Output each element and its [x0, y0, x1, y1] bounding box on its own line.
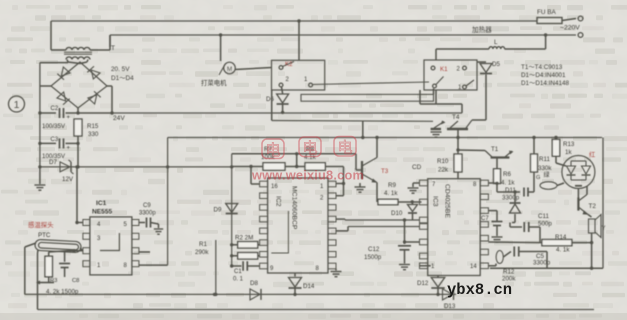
IC3 right pin stub	[480, 235, 488, 241]
svg-text:T: T	[111, 45, 115, 52]
wire down to pins	[343, 167, 345, 196]
wire IC2 pin to IC3	[336, 218, 345, 220]
resistor R2	[238, 242, 258, 249]
wire left column vertical	[39, 63, 41, 167]
relay coil	[301, 94, 434, 101]
bridge rectifier D1-D4	[51, 62, 107, 108]
wire IC3 pin8 to R6	[488, 182, 497, 184]
ground under T4	[431, 132, 442, 137]
svg-text:3300p: 3300p	[502, 195, 520, 202]
svg-text:100/35V: 100/35V	[42, 123, 66, 130]
svg-text:电: 电	[337, 140, 352, 157]
svg-text:1k: 1k	[565, 149, 572, 156]
svg-text:D14: D14	[303, 283, 315, 290]
IC2 right pin stub	[328, 228, 336, 234]
wire jog down to 24V rail	[461, 104, 463, 113]
zener D7 12V	[60, 160, 74, 174]
diode D10 bar	[408, 212, 417, 214]
svg-text:22k: 22k	[438, 167, 449, 174]
resistor R9	[378, 199, 398, 205]
wire C2 to R15 node	[66, 112, 79, 114]
wire C5 to bottom node	[546, 252, 548, 269]
wire T1 collector	[458, 149, 485, 152]
wire mains to K2 top	[298, 21, 300, 60]
svg-text:20. 5V: 20. 5V	[111, 66, 130, 73]
IC1 left pin stub	[83, 233, 90, 239]
svg-text:C7: C7	[481, 216, 489, 222]
relay K2 box	[272, 60, 325, 90]
wire 12V rail (y=167)	[40, 166, 232, 168]
svg-text:FU BA: FU BA	[537, 9, 557, 16]
wire pin to C7	[488, 210, 497, 212]
wire mains rail N (y=35)	[110, 34, 576, 36]
svg-text:4. 1k: 4. 1k	[384, 190, 398, 197]
capacitor C12	[398, 246, 411, 250]
wire rail to R13	[555, 138, 557, 140]
R3 bottom bar	[40, 282, 54, 284]
wire vertical x=232	[231, 154, 233, 265]
svg-text:C12: C12	[368, 246, 380, 253]
wire D11 row	[497, 191, 520, 193]
svg-text:D7: D7	[49, 159, 57, 166]
svg-text:D1～D14:IN4148: D1～D14:IN4148	[521, 80, 569, 87]
dual LED indicator	[562, 156, 595, 189]
wire C12 node to IC3	[405, 241, 420, 243]
wire pin14 to oval	[488, 265, 496, 267]
svg-text:电: 电	[265, 142, 280, 159]
wire IC1 pin6 stub	[139, 251, 150, 253]
svg-text:加热器: 加热器	[472, 25, 492, 34]
capacitor 3300p D11 row	[524, 188, 528, 197]
svg-text:PTC: PTC	[38, 232, 51, 239]
wire R8 to IC2 pin1 node	[325, 166, 343, 168]
wire K2 contact2 to D6	[282, 87, 283, 94]
svg-text:C2: C2	[51, 106, 59, 112]
svg-text:T3: T3	[381, 168, 389, 175]
IC2 right pin stub	[328, 216, 336, 222]
wire probe loop left down	[24, 247, 26, 294]
svg-text:ybx8.cn: ybx8.cn	[447, 281, 512, 299]
svg-text:~220V: ~220V	[560, 25, 580, 32]
IC1 right pin stub	[132, 248, 139, 254]
svg-text:G: G	[536, 175, 540, 181]
ground under C12	[399, 265, 410, 270]
svg-text:T2: T2	[589, 203, 597, 210]
svg-text:12V: 12V	[62, 176, 74, 183]
IC2 right pin stub	[328, 205, 336, 211]
svg-text:红: 红	[589, 151, 595, 159]
wire R10 to IC3	[457, 172, 459, 179]
oval component (filter)	[540, 182, 557, 190]
IC U2: IC2 MC14060BCP body	[268, 178, 328, 273]
capacitor C8	[59, 264, 70, 268]
svg-text:R13: R13	[563, 141, 575, 148]
diode D9	[226, 204, 238, 213]
svg-text:D6: D6	[266, 96, 274, 103]
wire probe to IC1 pin	[80, 248, 83, 251]
IC3 right pin stub	[480, 263, 488, 269]
IC3 right pin stub	[480, 249, 488, 255]
wire R9 to IC3 pin	[398, 201, 422, 203]
resistor R15	[74, 119, 82, 136]
svg-text:R11: R11	[539, 156, 550, 163]
circled number 1 marker	[9, 96, 25, 112]
svg-text:3300p: 3300p	[139, 211, 156, 217]
wire IC2 to D14	[294, 273, 296, 277]
IC2 left pin stub	[260, 193, 268, 199]
wire IC3 pin1 col	[437, 276, 439, 278]
IC2 right pin stub	[328, 193, 336, 199]
IC2 right pin stub	[328, 181, 336, 187]
wire mid rail	[40, 142, 56, 144]
wire K2 left edge down	[271, 90, 273, 121]
wire to T4 base (y=120.5)	[272, 120, 433, 123]
ground near T3	[355, 187, 366, 192]
wire transformer primary right drop	[109, 35, 111, 47]
resistor R13	[552, 139, 560, 156]
svg-text:M: M	[227, 66, 232, 73]
svg-text:IC1: IC1	[96, 200, 107, 207]
resistor R14	[542, 239, 572, 245]
wire 24V rail (y=113)	[112, 112, 462, 114]
ground at C9	[154, 229, 163, 234]
svg-text:CD4025BE: CD4025BE	[444, 184, 451, 218]
resistor R3	[45, 256, 53, 277]
svg-text:K1: K1	[440, 66, 448, 73]
svg-text:D8: D8	[250, 280, 258, 287]
IC2 left pin stub	[260, 263, 268, 269]
ground left of IC1	[34, 185, 45, 190]
inductor L	[489, 47, 505, 49]
diode D5	[480, 64, 492, 73]
transformer T	[66, 47, 90, 50]
IC2 left pin stub	[260, 252, 268, 258]
wire speaker down	[591, 233, 593, 268]
wire mains rail L (y=21)	[51, 20, 537, 22]
wire bridge right drop	[111, 86, 113, 113]
wire bottom node (y=268)	[490, 267, 603, 269]
svg-text:D5: D5	[492, 61, 500, 68]
wire 24V rail start	[40, 112, 56, 114]
wire T3 emitter to R9	[376, 183, 378, 203]
svg-text:24V: 24V	[113, 115, 125, 122]
IC2 right pin stub	[328, 252, 336, 258]
svg-text:14: 14	[470, 264, 477, 270]
svg-text:IC3: IC3	[432, 196, 439, 207]
wire to C1	[232, 265, 242, 267]
IC3 left pin stub	[420, 224, 428, 230]
wire right outer vertical x=603	[602, 138, 604, 269]
capacitor C5	[514, 247, 519, 257]
wire left control vertical x=168	[167, 138, 169, 266]
diode D8	[250, 289, 261, 300]
svg-text:IC2: IC2	[275, 196, 282, 207]
wire transformer primary left drop	[50, 21, 52, 48]
transistor T3	[355, 154, 357, 170]
svg-text:0. 1: 0. 1	[233, 277, 244, 283]
wire heater drop	[545, 35, 547, 49]
svg-text:感温探头: 感温探头	[28, 220, 54, 229]
fuse FU BA	[537, 18, 562, 24]
IC3 right pin stub	[480, 180, 488, 186]
motor M (打菜电机)	[224, 62, 236, 74]
IC2 left pin stub	[260, 205, 268, 211]
resistor R10	[454, 154, 462, 172]
diode D14	[289, 278, 302, 288]
diode D6	[277, 94, 289, 103]
wire to R3	[48, 252, 50, 256]
svg-text:T1～T4:C9013: T1～T4:C9013	[521, 64, 563, 71]
relay K1 box	[424, 60, 477, 90]
IC2 left pin stub	[260, 216, 268, 222]
wire oval to LED	[557, 183, 564, 186]
wire K1 bottom	[435, 90, 437, 104]
svg-text:CD: CD	[412, 164, 422, 171]
IC U3: IC3 CD4025BE body	[428, 179, 481, 276]
wire to C8	[64, 252, 66, 262]
wire 12V to IC1 pin4	[76, 167, 78, 223]
IC1 right pin stub	[132, 233, 139, 239]
svg-text:NE555: NE555	[92, 209, 112, 216]
IC2 right pin stub	[328, 263, 336, 269]
resistor R8	[305, 163, 325, 171]
wire C11 row	[510, 226, 522, 228]
svg-text:4. 2k 1500p: 4. 2k 1500p	[46, 289, 79, 296]
svg-text:D9: D9	[214, 207, 222, 214]
IC3 left pin stub	[420, 217, 428, 223]
IC1 left pin stub	[83, 261, 90, 267]
wire K1 to rail jog	[420, 103, 462, 105]
svg-text:+: +	[67, 115, 71, 121]
svg-text:290k: 290k	[195, 249, 209, 256]
svg-text:3300p: 3300p	[533, 260, 551, 267]
ground at IC2 pin 8	[331, 272, 342, 277]
speaker Y	[589, 219, 596, 233]
wire y=154 to T3	[232, 153, 356, 155]
wire control top rail (y=137.5)	[168, 137, 602, 139]
svg-text:T1: T1	[491, 146, 499, 153]
capacitor C2	[60, 108, 64, 118]
wire R14 to output node	[572, 242, 592, 244]
resistor R11	[531, 154, 538, 172]
svg-text:330k: 330k	[538, 165, 552, 172]
wire junction vertical x=362.8	[362, 121, 364, 138]
wire bottom rail 1 (y=294.4)	[25, 293, 456, 295]
IC3 left pin stub	[420, 263, 428, 269]
IC2 left pin stub	[260, 228, 268, 234]
svg-text:www.weixiu8.com: www.weixiu8.com	[251, 168, 364, 183]
wire K2 contact1 to K1	[313, 82, 430, 85]
wire secondary to left column	[40, 62, 68, 64]
resistor R7	[263, 163, 285, 171]
IC U1: IC1 NE555 body	[90, 217, 132, 275]
svg-text:打菜电机: 打菜电机	[201, 78, 227, 87]
wire to R2	[232, 244, 238, 246]
wire oval to C5	[503, 252, 511, 258]
svg-text:L: L	[494, 39, 498, 46]
svg-text:C1: C1	[234, 269, 242, 275]
ground under C7	[492, 237, 503, 242]
svg-text:R15: R15	[87, 123, 99, 130]
node R9/D10	[411, 200, 414, 203]
IC3 right pin stub	[480, 222, 488, 228]
diode at C7 node	[510, 204, 521, 213]
capacitor C7	[492, 222, 503, 226]
svg-text:1500p: 1500p	[364, 254, 382, 261]
wire probe loop to rail2	[37, 253, 39, 310]
IC3 right pin stub	[480, 194, 488, 200]
IC1 right pin stub	[132, 261, 139, 267]
wire T4 to R10	[457, 129, 459, 154]
IC3 left pin stub	[420, 180, 428, 186]
wire bridge left to left column	[40, 85, 51, 87]
wire 24V rail segment	[78, 112, 112, 114]
svg-text:R12: R12	[503, 269, 515, 276]
wire rail to R11	[533, 138, 535, 155]
wire D6 to 24V rail	[282, 105, 284, 113]
wire R11 to oval	[533, 172, 535, 186]
svg-text:500p: 500p	[538, 221, 552, 228]
wire IC3 to R14	[488, 241, 542, 244]
IC1 left pin stub	[83, 248, 90, 254]
relay K1 armature	[436, 77, 444, 85]
svg-text:R6: R6	[503, 171, 511, 178]
transistor T4	[431, 128, 441, 130]
IC1 left pin stub	[83, 220, 90, 226]
wire LED to T2	[577, 189, 579, 198]
wire K1 to D5	[477, 61, 486, 63]
svg-text:D1～D4:IN4001: D1～D4:IN4001	[521, 72, 566, 79]
wire bottom rail 2 (y=309.5)	[38, 309, 595, 311]
ground at IC3 pin7	[408, 188, 419, 193]
resistor R1 body	[238, 253, 258, 259]
wire pin8 to ground	[335, 269, 337, 271]
wire IC1 pin8 to control vertical	[139, 264, 168, 266]
wire R1 column	[215, 240, 217, 294]
svg-text:R14: R14	[555, 234, 567, 241]
wire to lower resistor	[232, 255, 238, 257]
IC3 left pin stub	[420, 239, 428, 245]
wire motor to relay K2	[235, 68, 272, 70]
svg-text:R10: R10	[437, 158, 449, 165]
svg-text:16: 16	[271, 184, 278, 190]
svg-text:D10: D10	[391, 210, 403, 217]
wire K1 contact to coil	[433, 89, 435, 95]
capacitor C9	[147, 218, 151, 228]
wire C12 column	[404, 220, 406, 244]
wire R7-R8	[285, 166, 305, 168]
svg-text:R1: R1	[199, 241, 207, 248]
svg-text:+: +	[67, 146, 71, 152]
terminal ~220V lower	[578, 33, 583, 38]
svg-text:R9: R9	[388, 182, 396, 189]
wire to ground left	[39, 167, 41, 184]
terminal ~220V upper	[578, 16, 583, 21]
diode D12	[431, 278, 445, 288]
svg-text:D13: D13	[444, 303, 456, 310]
transistor T2	[577, 198, 579, 211]
IC3 left pin stub	[420, 253, 428, 259]
wire T1 emitter to R6	[496, 158, 498, 169]
node probe/R3/C8	[72, 249, 75, 252]
svg-text:C8: C8	[72, 278, 79, 284]
IC3 right pin stub	[480, 208, 488, 214]
svg-text:T4: T4	[452, 114, 460, 121]
svg-text:C3: C3	[51, 137, 59, 143]
svg-text:R2 2M: R2 2M	[235, 235, 253, 242]
PTC probe element	[35, 239, 82, 252]
svg-text:绿: 绿	[544, 171, 550, 179]
IC2 right pin stub	[328, 240, 336, 246]
diode D13	[443, 289, 454, 300]
IC2 left pin stub	[260, 181, 268, 187]
IC3 left pin stub	[420, 199, 428, 205]
relay K2 armature	[283, 62, 295, 67]
wire pin7 to ground	[413, 182, 420, 184]
svg-text:C9: C9	[143, 203, 151, 209]
capacitor C3	[60, 138, 64, 148]
svg-text:D12: D12	[417, 280, 429, 287]
svg-text:D1～D4: D1～D4	[111, 75, 134, 82]
wire rail to motor	[220, 35, 222, 61]
wire IC2 pin to IC3 second	[336, 230, 348, 232]
resistor R6	[494, 169, 501, 184]
wire into K1 top	[435, 49, 437, 60]
capacitor C1	[243, 261, 247, 271]
svg-text:4. 1k: 4. 1k	[556, 247, 570, 254]
wire probe node	[49, 251, 68, 252]
IC1 right pin stub	[132, 220, 139, 226]
svg-text:电: 电	[302, 140, 317, 157]
svg-text:1: 1	[14, 99, 20, 111]
svg-text:330: 330	[88, 131, 99, 138]
wire bridge bottom to 24V rail	[77, 108, 79, 113]
svg-text:4. 1k: 4. 1k	[501, 180, 515, 187]
wire D5 to T4 collector	[485, 75, 487, 121]
capacitor C11	[524, 222, 529, 232]
wire T3 collector to rail	[376, 138, 378, 158]
wire R15 bottom to 12V rail	[77, 143, 79, 167]
wire to IC2 pin16	[250, 167, 252, 185]
wire pin5 to C9	[139, 222, 145, 224]
red watermark glyph boxes	[262, 137, 356, 160]
svg-text:MC14060BCP: MC14060BCP	[291, 186, 298, 230]
svg-text:C11: C11	[538, 213, 549, 220]
wire to R7	[232, 166, 263, 168]
wire fuse to terminal	[562, 19, 576, 21]
IC2 left pin stub	[260, 240, 268, 246]
wire L left	[436, 48, 489, 50]
